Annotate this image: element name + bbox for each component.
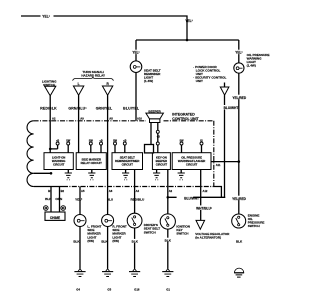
svg-text:B1: B1	[48, 189, 52, 193]
svg-text:(in ALTERNATOR): (in ALTERNATOR)	[195, 236, 221, 240]
svg-text:+B: +B	[99, 139, 102, 142]
svg-text:BLU: BLU	[107, 198, 114, 202]
svg-text:G5: G5	[107, 288, 111, 292]
svg-text:CIRCUIT: CIRCUIT	[122, 163, 134, 167]
svg-text:A12: A12	[203, 189, 208, 193]
svg-text:GRN/BLU¹: GRN/BLU¹	[68, 107, 87, 111]
svg-text:CONTROL UNIT: CONTROL UNIT	[172, 117, 199, 121]
svg-text:A11: A11	[216, 163, 221, 167]
svg-text:BLK: BLK	[236, 240, 243, 244]
svg-text:A8: A8	[109, 117, 113, 121]
svg-text:(1.4W): (1.4W)	[247, 63, 256, 67]
svg-text:CIRCUIT: CIRCUIT	[156, 163, 168, 167]
svg-text:BLU/YEL: BLU/YEL	[123, 107, 140, 111]
svg-text:G16: G16	[134, 288, 140, 292]
svg-text:A10: A10	[137, 117, 142, 121]
svg-text:YEL/RED: YEL/RED	[232, 197, 247, 201]
svg-text:+B: +B	[123, 139, 126, 142]
svg-text:SW: SW	[89, 139, 94, 142]
svg-text:+B: +B	[56, 139, 59, 142]
svg-text:A2: A2	[52, 117, 56, 121]
svg-text:G1: G1	[166, 288, 170, 292]
svg-text:A5: A5	[81, 189, 85, 193]
svg-text:RED/BLU: RED/BLU	[131, 198, 146, 202]
svg-text:BLK: BLK	[165, 238, 172, 242]
svg-text:SWITCH: SWITCH	[43, 83, 55, 87]
svg-text:CIRCUIT: CIRCUIT	[186, 163, 198, 167]
svg-text:BLU/WHT: BLU/WHT	[224, 106, 239, 110]
svg-text:B2: B2	[61, 189, 65, 193]
svg-text:SW: SW	[66, 139, 71, 142]
svg-text:GRN/YEL: GRN/YEL	[96, 107, 113, 111]
svg-text:YEL¹: YEL¹	[185, 19, 193, 23]
svg-text:(5W): (5W)	[112, 239, 119, 243]
svg-text:CHIME: CHIME	[50, 216, 60, 220]
svg-text:G4: G4	[76, 288, 80, 292]
svg-text:BLK: BLK	[45, 197, 52, 201]
svg-text:A9: A9	[80, 117, 84, 121]
svg-text:BLK: BLK	[101, 240, 108, 244]
svg-text:INTEGRATED: INTEGRATED	[172, 112, 195, 116]
svg-text:+B: +B	[157, 135, 160, 138]
svg-text:SW: SW	[179, 139, 184, 142]
svg-text:WHT/BLU¹: WHT/BLU¹	[196, 207, 212, 211]
svg-text:CIRCUIT: CIRCUIT	[53, 163, 65, 167]
svg-text:(1.4W): (1.4W)	[144, 79, 153, 83]
svg-text:YEL/RED: YEL/RED	[232, 96, 247, 100]
svg-text:IG: IG	[200, 139, 203, 142]
svg-text:A4: A4	[136, 189, 140, 193]
svg-text:YEL¹: YEL¹	[132, 51, 139, 55]
svg-text:A2: A2	[169, 189, 173, 193]
svg-text:YEL¹: YEL¹	[235, 51, 242, 55]
svg-text:ORN: ORN	[55, 197, 63, 201]
svg-text:(5W): (5W)	[87, 239, 94, 243]
svg-text:BLU/WHT: BLU/WHT	[184, 196, 199, 200]
svg-text:SW: SW	[113, 139, 118, 142]
svg-text:RELAY CIRCUIT: RELAY CIRCUIT	[81, 161, 103, 165]
svg-text:SWITCH: SWITCH	[144, 230, 156, 234]
svg-text:HAZARD RELAY: HAZARD RELAY	[81, 74, 105, 78]
svg-text:BLK: BLK	[73, 240, 80, 244]
svg-text:YEL¹: YEL¹	[42, 15, 50, 19]
svg-text:A8: A8	[109, 189, 113, 193]
svg-text:BEEPER: BEEPER	[148, 110, 161, 114]
svg-text:RED/BLK: RED/BLK	[40, 107, 57, 111]
svg-text:L: L	[78, 82, 80, 86]
svg-text:SWITCH: SWITCH	[248, 224, 260, 228]
svg-text:UNIT: UNIT	[196, 79, 203, 83]
svg-text:YEL²: YEL²	[75, 198, 82, 202]
svg-text:BLK: BLK	[132, 240, 139, 244]
svg-text:SWITCH: SWITCH	[176, 232, 188, 236]
